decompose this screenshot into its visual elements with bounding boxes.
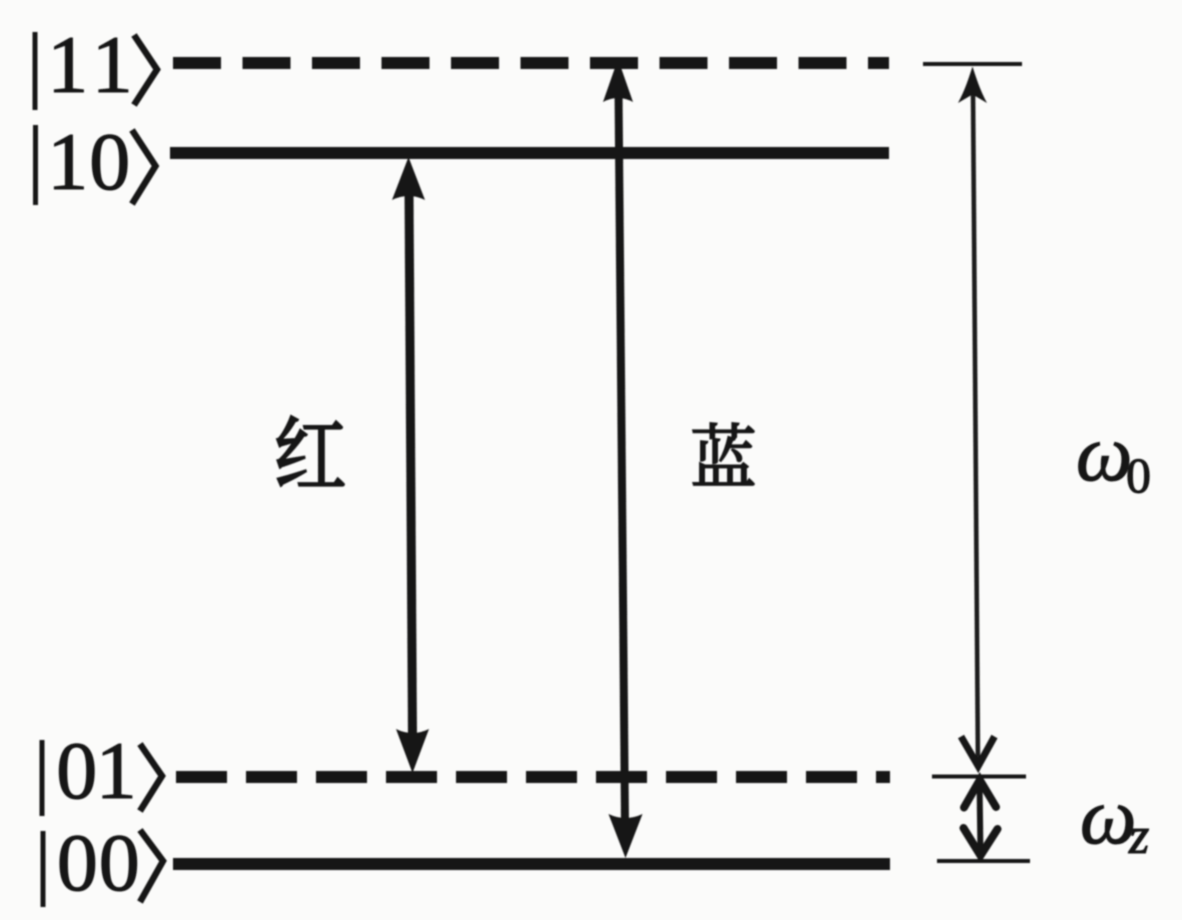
level line |00> (solid) — [173, 858, 890, 870]
red sideband arrow (red detuned transition) — [392, 157, 429, 773]
tick mark at |00> level (right) — [937, 859, 1030, 863]
ket label |00> — [43, 817, 163, 908]
tick mark at |11> level (right) — [923, 62, 1022, 66]
svg-text:1: 1 — [92, 19, 133, 110]
level line |01> (dashed) — [176, 771, 890, 783]
svg-text:1: 1 — [47, 19, 88, 110]
svg-text:ω: ω — [1076, 410, 1132, 498]
blue sideband arrow (blue detuned transition) — [603, 59, 643, 858]
label red (Chinese hong) — [277, 416, 344, 486]
svg-text:0: 0 — [56, 725, 97, 816]
svg-text:0: 0 — [99, 817, 140, 908]
level line |10> (solid) — [170, 147, 889, 159]
ket label |11> — [35, 19, 157, 110]
svg-text:z: z — [1128, 808, 1149, 865]
svg-text:1: 1 — [47, 116, 88, 207]
svg-text:0: 0 — [1126, 447, 1151, 503]
svg-text:0: 0 — [89, 116, 130, 207]
tick mark at |01> level (right) — [932, 775, 1026, 779]
level line |11> (dashed) — [173, 57, 889, 69]
ket label |01> — [42, 725, 162, 816]
svg-text:0: 0 — [57, 817, 98, 908]
label blue (Chinese lan) — [693, 423, 754, 485]
omega_z double arrow — [964, 780, 998, 856]
omega0 double arrow — [958, 67, 995, 769]
svg-text:ω: ω — [1080, 773, 1136, 861]
svg-text:1: 1 — [96, 725, 137, 816]
ket label |10> — [36, 116, 156, 207]
